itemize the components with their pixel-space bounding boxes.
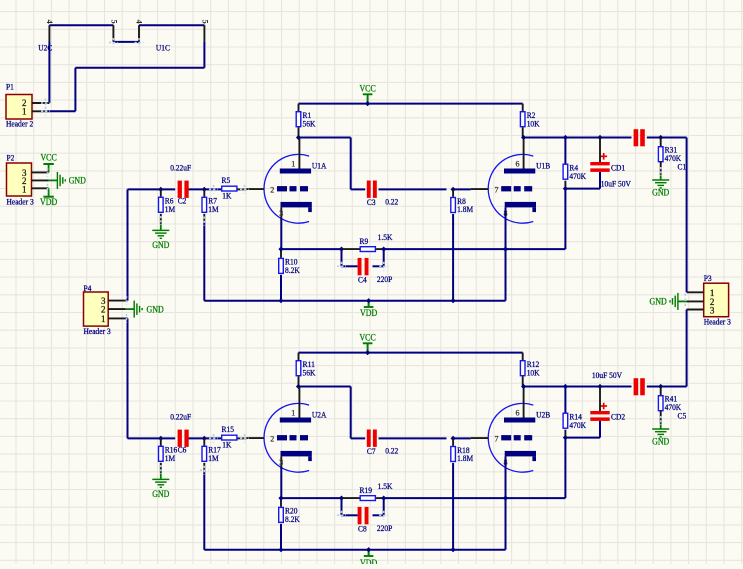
wire <box>453 188 471 190</box>
wire <box>505 207 507 300</box>
svg-text:220P: 220P <box>377 523 393 533</box>
junction <box>278 547 283 552</box>
svg-text:1.5K: 1.5K <box>378 232 394 242</box>
resistor R41 470K <box>658 394 682 412</box>
wire <box>299 352 523 354</box>
svg-text:C8: C8 <box>358 524 367 534</box>
wire <box>523 386 632 388</box>
ground <box>670 293 678 310</box>
wire <box>599 172 601 189</box>
capacitor C6 0.22uF <box>170 411 191 454</box>
junction <box>451 436 456 441</box>
svg-text:C3: C3 <box>367 197 376 207</box>
triode U1B <box>471 138 551 224</box>
wire <box>139 24 204 26</box>
resistor R2 10K <box>520 110 540 128</box>
svg-text:6: 6 <box>516 160 520 169</box>
resistor R11 56K <box>296 359 316 377</box>
selection mark <box>209 434 218 443</box>
wire <box>367 95 369 104</box>
selection mark <box>126 296 128 305</box>
resistor R1 56K <box>296 110 316 128</box>
junction <box>381 247 386 252</box>
ground <box>652 429 669 437</box>
svg-text:0.22: 0.22 <box>385 197 398 207</box>
junction <box>339 496 344 501</box>
svg-text:VCC: VCC <box>40 152 56 162</box>
svg-text:C7: C7 <box>367 446 376 456</box>
svg-text:1: 1 <box>291 409 295 418</box>
wire <box>75 67 204 69</box>
wire <box>126 308 134 310</box>
wire <box>376 248 384 250</box>
resistor R5 1K <box>222 175 237 200</box>
capacitor C5 <box>634 378 687 420</box>
wire <box>565 188 600 190</box>
capacitor C3 0.22 <box>367 181 399 208</box>
junction <box>658 384 663 389</box>
resistor R31 470K <box>658 145 682 163</box>
svg-text:3: 3 <box>279 458 283 467</box>
junction <box>366 298 371 303</box>
resistor R12 10K <box>520 359 540 377</box>
junction <box>158 187 163 192</box>
wire <box>686 138 688 293</box>
svg-text:3: 3 <box>710 305 715 315</box>
svg-text:8.2K: 8.2K <box>285 265 301 275</box>
wire <box>384 248 506 250</box>
selection mark <box>240 185 249 194</box>
connector P4 labels <box>84 283 111 336</box>
wire <box>368 301 370 307</box>
wire <box>298 353 300 360</box>
wire <box>351 437 366 439</box>
pin P4.1 <box>108 317 126 319</box>
wire <box>48 42 50 104</box>
junction <box>366 547 371 552</box>
resistor R18 1.8M <box>451 445 474 463</box>
wire <box>128 188 176 190</box>
svg-text:56K: 56K <box>303 118 317 128</box>
pin P2.3 <box>32 171 49 173</box>
svg-text:7: 7 <box>495 185 499 194</box>
power VDD label <box>360 556 378 568</box>
wire <box>281 248 342 250</box>
wire <box>342 514 358 516</box>
resistor R17 1M <box>202 445 221 463</box>
resistor R15 1K <box>222 424 237 449</box>
svg-text:P2: P2 <box>7 152 15 162</box>
wire <box>280 498 282 507</box>
wire <box>299 137 351 139</box>
pin P4.2 <box>108 308 126 310</box>
wire <box>280 275 282 301</box>
svg-text:GND: GND <box>152 489 170 499</box>
pin P2.2 <box>32 179 49 181</box>
wire <box>452 189 454 196</box>
svg-text:470K: 470K <box>665 153 682 163</box>
resistor R8 1.8M <box>451 196 474 214</box>
selection mark <box>47 184 49 193</box>
wire <box>506 497 566 499</box>
wire <box>299 103 523 105</box>
svg-text:GND: GND <box>650 297 668 307</box>
junction <box>503 496 508 501</box>
wire <box>522 104 524 111</box>
svg-text:U2A: U2A <box>312 409 327 419</box>
junction <box>451 187 456 192</box>
capacitor CD2 10uF 50V <box>590 370 625 421</box>
svg-text:R15: R15 <box>222 424 235 434</box>
svg-text:CD1: CD1 <box>611 163 625 173</box>
junction <box>521 384 526 389</box>
svg-text:0.22uF: 0.22uF <box>170 162 191 172</box>
junction <box>658 135 663 140</box>
wire <box>160 473 162 479</box>
resistor R14 470K <box>563 412 587 430</box>
svg-text:2: 2 <box>270 434 274 443</box>
wire <box>383 498 385 515</box>
junction <box>365 350 370 355</box>
wire <box>506 248 566 250</box>
svg-text:1: 1 <box>291 160 295 169</box>
wire <box>280 524 282 550</box>
svg-text:1: 1 <box>22 184 27 194</box>
wire <box>453 437 471 439</box>
selection mark <box>240 434 249 443</box>
wire <box>647 386 687 388</box>
capacitor CD1 10uF 50V <box>590 153 631 188</box>
connector P1 Header 2 <box>6 95 32 120</box>
wire <box>599 138 601 163</box>
svg-text:56K: 56K <box>303 367 317 377</box>
wire <box>660 138 662 147</box>
pin P2.1 <box>32 187 49 189</box>
wire <box>126 300 128 302</box>
wire <box>452 438 454 445</box>
svg-text:Header 2: Header 2 <box>6 118 33 128</box>
heater U1C <box>135 20 211 53</box>
wire <box>341 249 343 266</box>
junction <box>339 247 344 252</box>
wire <box>599 421 601 438</box>
ground <box>57 172 65 189</box>
wire <box>126 317 128 319</box>
wire <box>49 24 113 26</box>
svg-text:1M: 1M <box>165 453 176 463</box>
svg-text:10uF 50V: 10uF 50V <box>601 178 632 188</box>
wire <box>160 438 162 445</box>
wire <box>564 430 566 438</box>
wire <box>74 68 76 112</box>
svg-text:VCC: VCC <box>359 83 375 93</box>
wire <box>280 467 282 498</box>
wire <box>373 265 384 267</box>
svg-text:VDD: VDD <box>360 308 378 318</box>
selection mark <box>135 38 144 47</box>
wire <box>298 127 300 137</box>
svg-text:220P: 220P <box>377 274 393 284</box>
svg-text:1.8M: 1.8M <box>457 453 473 463</box>
wire <box>660 387 662 396</box>
ground <box>152 479 169 487</box>
selection mark <box>109 38 118 47</box>
junction <box>278 496 283 501</box>
pin P4.3 <box>108 300 126 302</box>
wire <box>160 224 162 230</box>
capacitor C8 220P <box>358 507 393 534</box>
svg-text:5: 5 <box>110 20 120 24</box>
svg-text:8.2K: 8.2K <box>285 514 301 524</box>
svg-text:GND: GND <box>652 187 670 197</box>
wire <box>379 188 447 190</box>
resistor R6 1M <box>159 196 176 214</box>
selection marks <box>684 294 686 309</box>
selection mark <box>47 168 49 177</box>
svg-text:C6: C6 <box>178 445 187 455</box>
heater U2C <box>38 20 119 53</box>
svg-text:10K: 10K <box>527 367 541 377</box>
wire <box>203 222 205 301</box>
ground <box>652 180 669 188</box>
svg-text:R19: R19 <box>360 485 373 495</box>
svg-text:6: 6 <box>516 409 520 418</box>
wire <box>565 437 600 439</box>
wire <box>367 344 369 353</box>
resistor R7 1M <box>202 196 219 214</box>
pin P1.1 <box>32 110 47 112</box>
junction <box>597 135 602 140</box>
wire <box>204 549 505 551</box>
svg-text:470K: 470K <box>569 420 586 430</box>
wire <box>660 410 662 423</box>
selection mark <box>126 314 128 323</box>
svg-text:C4: C4 <box>358 275 367 285</box>
wire <box>686 310 688 387</box>
wire <box>203 42 205 68</box>
junction <box>202 436 207 441</box>
wire <box>522 127 524 137</box>
wire <box>189 437 222 439</box>
wire <box>203 438 205 445</box>
wire <box>660 161 662 174</box>
wire <box>203 471 205 550</box>
wire <box>299 386 351 388</box>
junction <box>503 496 508 501</box>
svg-text:4: 4 <box>135 20 145 25</box>
wire <box>342 248 360 250</box>
wire <box>238 437 247 439</box>
triode U2B <box>471 387 551 473</box>
svg-text:GND: GND <box>652 436 670 446</box>
svg-text:Header 3: Header 3 <box>7 197 34 207</box>
wire <box>564 438 566 499</box>
selection mark <box>337 262 346 271</box>
svg-text:GND: GND <box>152 240 170 250</box>
capacitor C2 0.22uF <box>170 162 191 205</box>
power VCC label <box>359 83 375 94</box>
selection mark <box>203 217 205 226</box>
ground <box>134 301 142 318</box>
wire <box>660 424 662 429</box>
power VCC label <box>359 332 375 343</box>
wire <box>127 189 129 300</box>
wire <box>678 300 686 302</box>
svg-text:GND: GND <box>69 176 87 186</box>
junction <box>381 496 386 501</box>
triode U2A <box>247 387 328 473</box>
wire <box>49 179 57 181</box>
wire <box>160 214 162 224</box>
wire <box>128 437 176 439</box>
pin P3.1 <box>687 291 704 293</box>
pin P3.3 <box>687 309 704 311</box>
connector P3 Header 3 <box>704 283 729 317</box>
wire <box>160 463 162 473</box>
wire <box>281 497 342 499</box>
selection mark <box>379 511 388 520</box>
junction <box>202 187 207 192</box>
power VDD at P2 <box>40 188 58 207</box>
svg-text:P1: P1 <box>6 81 14 91</box>
wire <box>564 138 566 164</box>
wire <box>505 456 507 549</box>
svg-text:5: 5 <box>201 20 211 24</box>
svg-text:1K: 1K <box>222 439 232 449</box>
wire <box>238 188 247 190</box>
svg-text:1: 1 <box>22 107 27 117</box>
wire <box>564 189 566 250</box>
wire <box>452 463 454 550</box>
wire <box>660 175 662 180</box>
selection mark <box>660 416 662 425</box>
wire <box>203 189 205 196</box>
wire <box>298 376 300 386</box>
junction <box>365 101 370 106</box>
wire <box>350 138 352 190</box>
selection mark <box>160 465 162 474</box>
resistor R9 1.5K <box>360 232 394 252</box>
resistor R16 1M <box>159 445 178 463</box>
svg-text:470K: 470K <box>569 171 586 181</box>
ground <box>152 230 169 238</box>
selection mark <box>41 99 50 108</box>
svg-text:1: 1 <box>101 314 106 324</box>
svg-text:1.8M: 1.8M <box>457 204 473 214</box>
wire <box>127 318 129 438</box>
svg-text:R5: R5 <box>222 175 231 185</box>
wire <box>280 218 282 249</box>
resistor R20 8.2K <box>279 506 301 524</box>
wire <box>564 387 566 413</box>
svg-text:CD2: CD2 <box>611 412 625 422</box>
svg-text:GND: GND <box>147 305 165 315</box>
wire <box>189 188 222 190</box>
wire <box>298 104 300 111</box>
svg-text:U1B: U1B <box>536 160 550 170</box>
svg-text:1K: 1K <box>222 190 232 200</box>
junction <box>296 135 301 140</box>
power VDD label <box>360 307 378 318</box>
wire <box>203 463 205 471</box>
wire <box>342 265 358 267</box>
resistor R10 8.2K <box>279 257 301 275</box>
svg-text:Header 3: Header 3 <box>704 317 731 327</box>
svg-text:VCC: VCC <box>359 332 375 342</box>
svg-text:470K: 470K <box>665 402 682 412</box>
svg-text:Header 3: Header 3 <box>84 326 111 336</box>
svg-text:U2B: U2B <box>536 409 550 419</box>
wire <box>342 497 360 499</box>
wire <box>523 137 632 139</box>
connector P2 Header 3 <box>7 163 32 196</box>
junction <box>503 247 508 252</box>
wire <box>341 498 343 515</box>
svg-text:U1C: U1C <box>156 42 170 52</box>
svg-text:1M: 1M <box>208 453 219 463</box>
capacitor C1 <box>634 129 687 171</box>
pin P1.2 <box>32 102 49 104</box>
junction <box>278 247 283 252</box>
svg-text:U1A: U1A <box>312 160 327 170</box>
selection mark <box>200 466 209 475</box>
svg-text:1.5K: 1.5K <box>378 481 394 491</box>
connector P3 labels <box>704 273 731 326</box>
wire <box>599 387 601 412</box>
junction <box>158 436 163 441</box>
selection mark <box>41 107 50 116</box>
capacitor C4 220P <box>358 258 393 285</box>
svg-text:10K: 10K <box>527 118 541 128</box>
wire <box>379 437 447 439</box>
connector P2 labels <box>7 152 34 206</box>
svg-text:R9: R9 <box>360 236 369 246</box>
connector P1 labels <box>6 81 33 128</box>
pin P3.2 <box>687 300 704 302</box>
resistor R19 1.5K <box>360 481 394 501</box>
wire <box>368 550 370 556</box>
svg-text:C2: C2 <box>178 196 187 206</box>
triode U1A <box>247 138 328 224</box>
wire <box>383 249 385 266</box>
selection mark <box>160 216 162 225</box>
svg-text:7: 7 <box>495 434 499 443</box>
svg-text:0.22uF: 0.22uF <box>170 411 191 421</box>
wire <box>350 387 352 439</box>
svg-text:VDD: VDD <box>360 558 378 564</box>
svg-text:10uF 50V: 10uF 50V <box>592 370 623 380</box>
selection mark <box>209 185 218 194</box>
wire <box>204 300 505 302</box>
selection mark <box>660 167 662 176</box>
junction <box>597 384 602 389</box>
wire <box>113 41 139 43</box>
junction <box>563 135 568 140</box>
junction <box>503 247 508 252</box>
wire <box>384 497 506 499</box>
wire <box>376 497 384 499</box>
junction <box>563 384 568 389</box>
junction <box>521 135 526 140</box>
svg-text:P4: P4 <box>84 283 93 293</box>
wire <box>47 110 75 112</box>
junction <box>563 186 568 191</box>
wire <box>522 353 524 360</box>
wire <box>280 249 282 258</box>
junction <box>563 435 568 440</box>
resistor R4 470K <box>563 163 587 181</box>
svg-text:0.22: 0.22 <box>385 446 398 456</box>
